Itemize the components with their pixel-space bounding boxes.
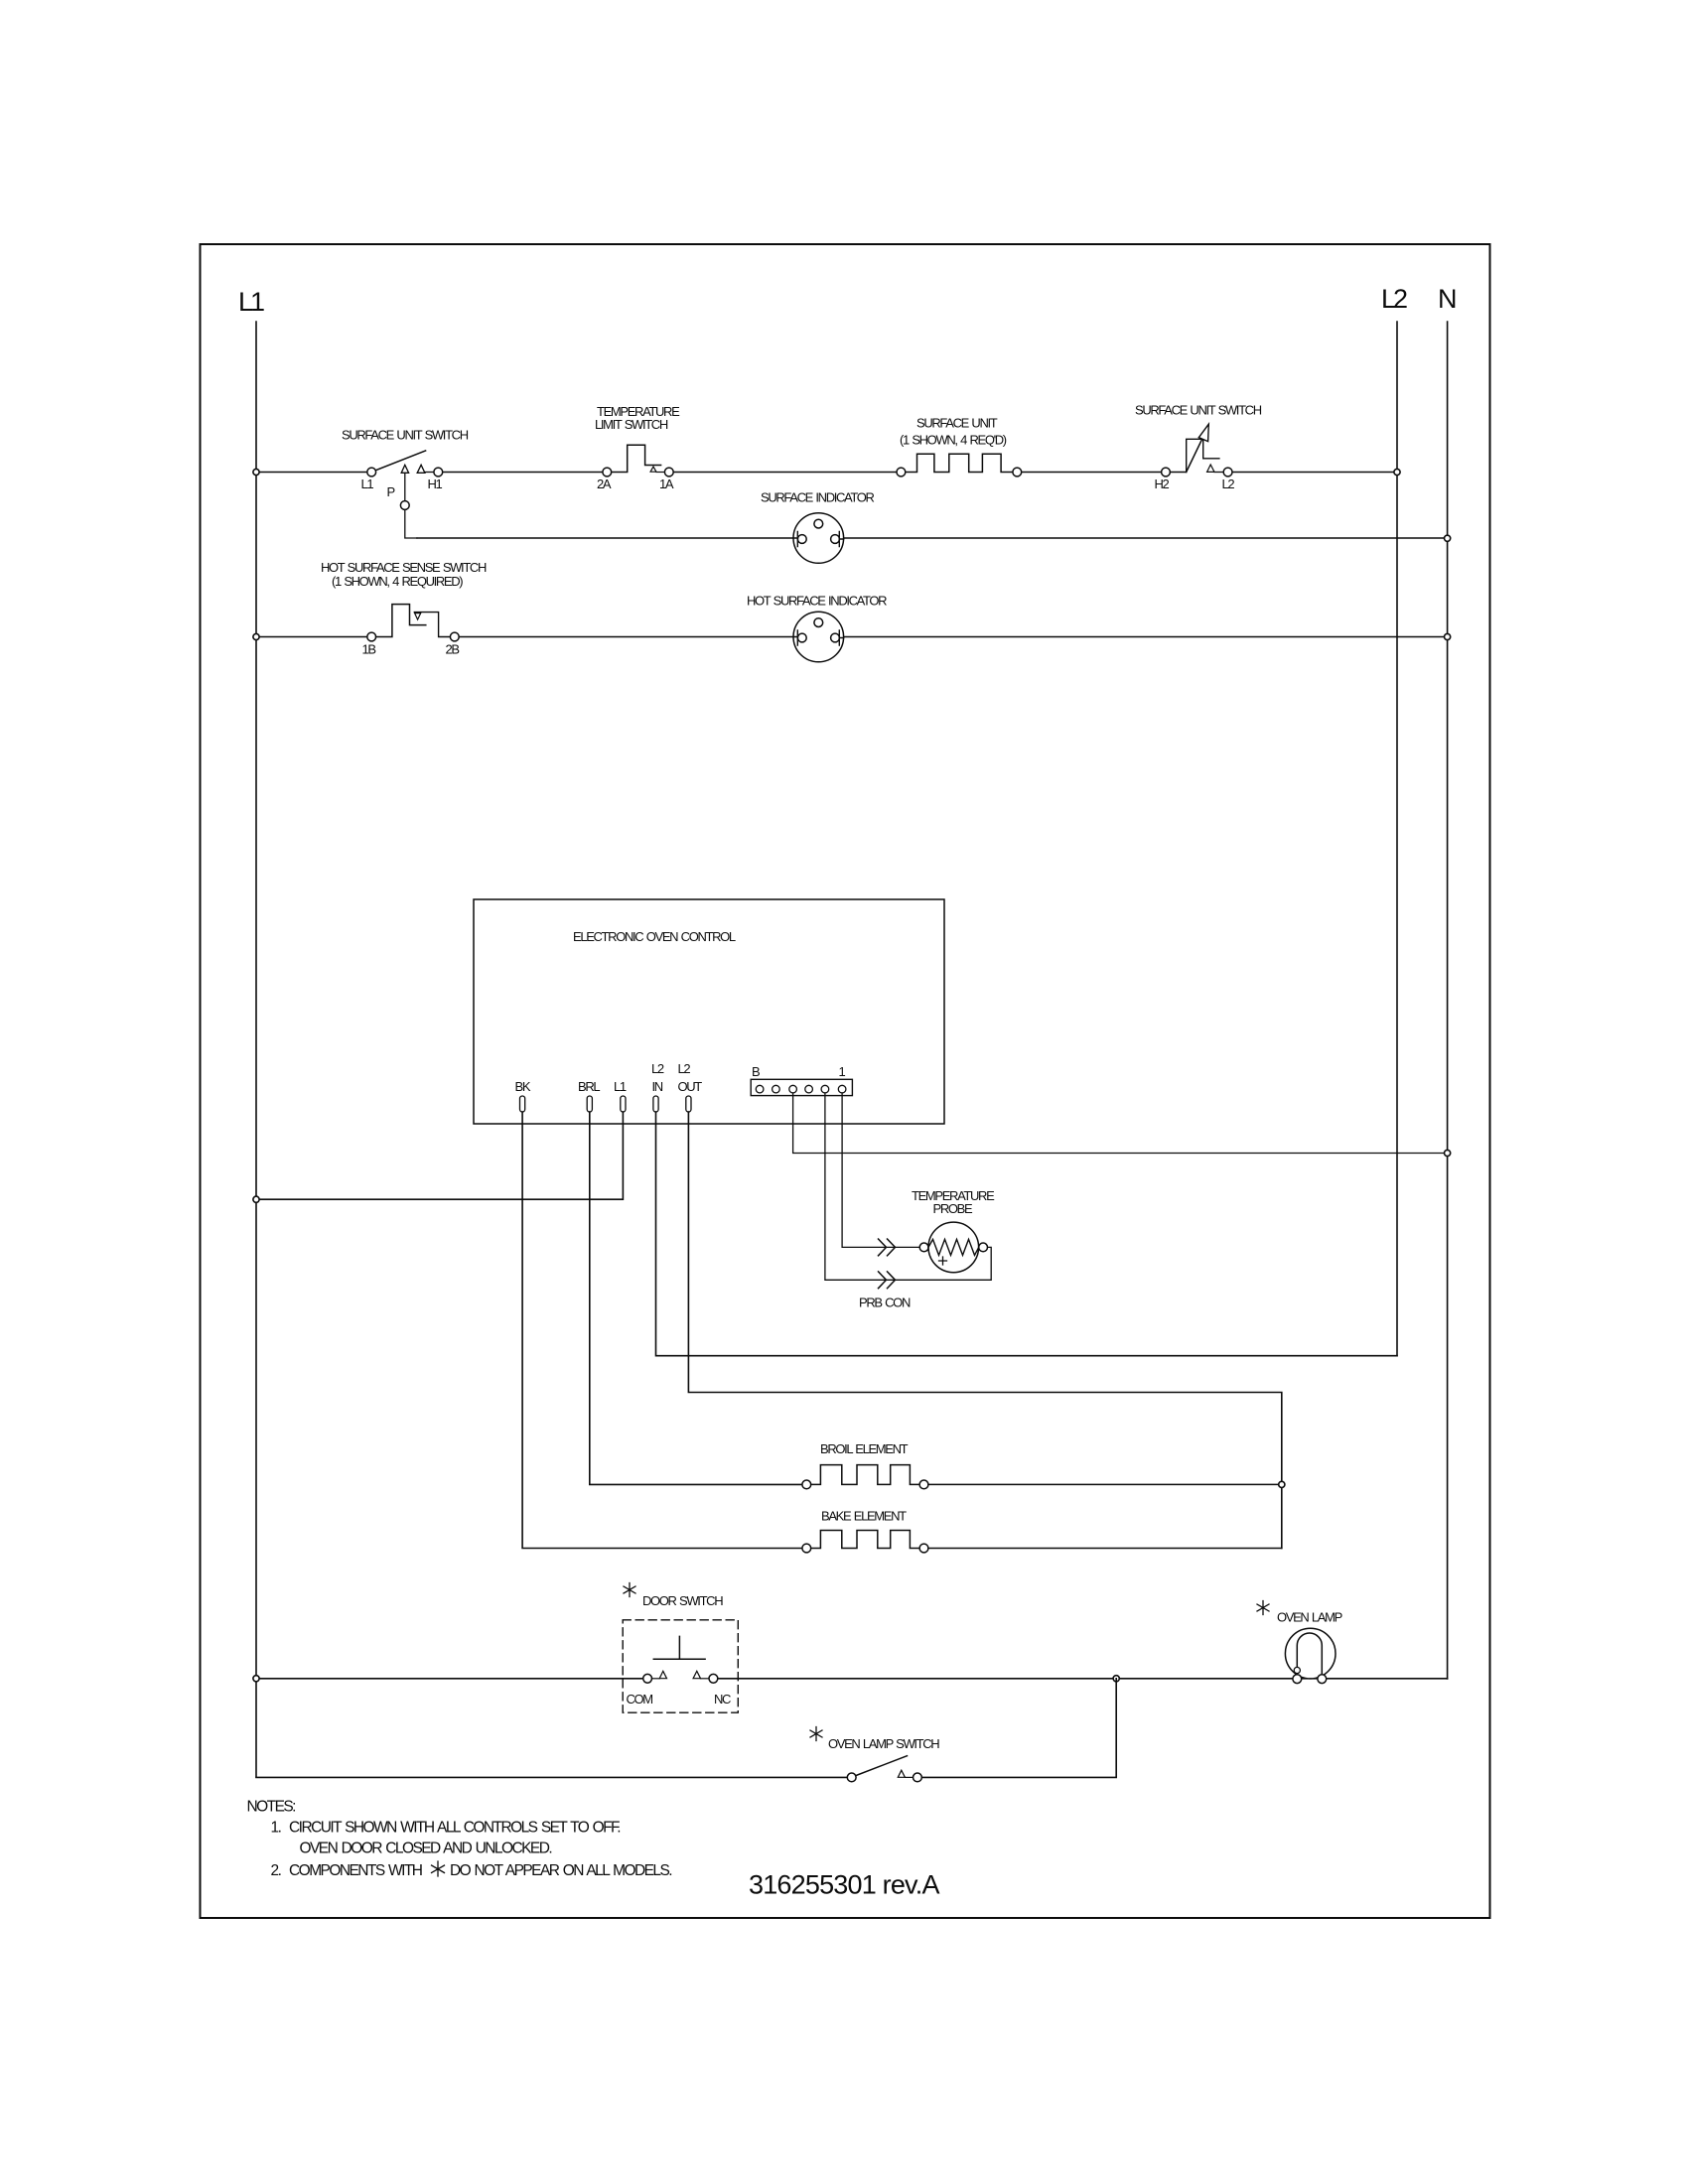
wire rung1 left segment L1 to surface unit switch [256,472,368,474]
wire probe common to N bus [793,1093,1448,1154]
svg-text:SURFACE UNIT: SURFACE UNIT [916,416,998,431]
connector block J1 [751,1064,852,1096]
wire door rung right [718,1678,1448,1680]
wire rung2 left segment [256,636,367,638]
svg-text:PROBE: PROBE [933,1201,973,1216]
svg-text:P: P [387,484,395,499]
wire rung2 2B to hot surface indicator [459,636,794,638]
junction lamp switch tap [1113,1676,1119,1682]
wire L2 bus vertical [1396,322,1398,1356]
svg-text:N: N [1438,284,1456,314]
svg-text:HOT SURFACE INDICATOR: HOT SURFACE INDICATOR [747,594,887,609]
svg-text:BAKE ELEMENT: BAKE ELEMENT [821,1509,907,1524]
svg-text:B: B [752,1064,760,1079]
junction rung1-L2 [1394,469,1400,475]
svg-text:2A: 2A [597,477,612,491]
wire L2 OUT pin to elements [688,1112,1281,1549]
pin BK [515,1079,531,1112]
junction L1-rung2 [253,633,259,639]
svg-text:BROIL ELEMENT: BROIL ELEMENT [820,1441,909,1456]
svg-text:DOOR SWITCH: DOOR SWITCH [642,1593,723,1608]
junction L1-door rung [253,1676,259,1682]
svg-text:NOTES:: NOTES: [247,1799,296,1816]
connector chevrons lower [879,1272,896,1289]
pin L2 OUT [678,1061,703,1112]
svg-text:1B: 1B [362,642,376,657]
svg-text:1: 1 [839,1064,846,1079]
svg-text:SURFACE INDICATOR: SURFACE INDICATOR [761,490,875,505]
asterisk in note 2 [432,1861,445,1876]
svg-text:PRB CON: PRB CON [859,1296,911,1310]
svg-text:OUT: OUT [678,1079,703,1094]
svg-text:L1: L1 [361,477,374,491]
wire surface indicator line [417,537,1448,539]
wire rung1 surface unit to H2 [1021,472,1162,474]
resistor surface unit element [897,416,1022,477]
svg-text:2. COMPONENTS WITH: 2. COMPONENTS WITH [271,1862,422,1879]
wire lamp switch rung [256,1679,1116,1778]
svg-text:HOT SURFACE SENSE SWITCH: HOT SURFACE SENSE SWITCH [321,560,487,575]
connector chevrons upper [879,1239,896,1256]
svg-text:L1: L1 [614,1079,627,1094]
lamp surface indicator [761,490,875,564]
switch temperature limit switch [595,404,680,491]
svg-text:L2: L2 [678,1061,691,1076]
svg-text:1A: 1A [659,477,674,491]
resistor temperature probe [859,1188,995,1310]
svg-text:OVEN DOOR CLOSED AND UNLOCKED.: OVEN DOOR CLOSED AND UNLOCKED. [300,1841,552,1857]
wire connector pin5 to probe right [825,1093,991,1280]
junction broil right on L2OUT wire [1279,1481,1285,1487]
wire N bus vertical [1447,322,1449,1679]
wire rung1 L2 terminal to L2 bus [1232,472,1397,474]
switch hot surface sense switch [321,560,487,657]
svg-text:1. CIRCUIT SHOWN WITH ALL CON: 1. CIRCUIT SHOWN WITH ALL CONTROLS SET T… [271,1820,621,1837]
pin BRL [578,1079,600,1112]
junction probe-common on N bus [1445,1150,1451,1156]
svg-text:L2: L2 [1381,284,1407,314]
svg-text:LIMIT SWITCH: LIMIT SWITCH [595,417,668,432]
border frame [201,244,1490,1918]
terminal P contact circle [400,501,409,510]
svg-text:SURFACE UNIT SWITCH: SURFACE UNIT SWITCH [1135,403,1262,418]
junction L1pin-wire on L1 bus [253,1196,259,1202]
wire L1 bus vertical [255,322,257,1777]
svg-text:L2: L2 [651,1061,664,1076]
wire BRL pin to broil element [590,1112,802,1484]
svg-text:BRL: BRL [578,1079,600,1094]
svg-text:316255301 rev.A: 316255301 rev.A [749,1870,939,1900]
wire rung1 1A to surface unit [673,472,897,474]
switch SW2 surface unit switch (right) [1135,403,1262,492]
svg-text:IN: IN [652,1079,663,1094]
switch oven lamp switch [810,1727,939,1782]
notes text block [247,1799,672,1880]
junction rung2-N [1445,633,1451,639]
svg-text:H2: H2 [1155,477,1170,491]
svg-text:OVEN LAMP SWITCH: OVEN LAMP SWITCH [828,1736,939,1751]
svg-text:L2: L2 [1222,477,1235,491]
svg-text:COM: COM [627,1692,653,1706]
svg-text:DO NOT APPEAR ON ALL MODELS.: DO NOT APPEAR ON ALL MODELS. [450,1862,671,1879]
wire rung2 hot surface indicator to N [843,636,1448,638]
wire P branch to surface indicator line [405,474,417,539]
svg-text:(1 SHOWN, 4 REQUIRED): (1 SHOWN, 4 REQUIRED) [332,574,463,589]
lamp oven lamp [1257,1601,1342,1684]
wire L2 IN pin to L2 bus [656,1112,1398,1356]
wire L1 pin down-left to L1 bus [256,1112,623,1199]
svg-text:L1: L1 [238,287,264,317]
lamp hot surface indicator [747,594,887,662]
wire door rung left [256,1678,643,1680]
resistor bake element [802,1509,1282,1553]
wire BK pin to bake element [522,1112,802,1549]
box electronic oven control U1 [474,899,944,1124]
wire rung1 H1 to 2A [443,472,604,474]
pin L2 IN [651,1061,664,1112]
svg-text:BK: BK [515,1079,531,1094]
svg-text:SURFACE UNIT SWITCH: SURFACE UNIT SWITCH [342,428,469,443]
switch SW1 surface unit switch (left) [342,428,469,500]
junction indicator-N [1445,535,1451,541]
wire connector pin6 to probe left [842,1093,919,1247]
svg-text:NC: NC [714,1692,731,1706]
resistor broil element [802,1441,1279,1489]
pin L1 [614,1079,627,1112]
junction L1-rung1 [253,469,259,475]
svg-text:ELECTRONIC OVEN CONTROL: ELECTRONIC OVEN CONTROL [573,929,736,944]
svg-text:(1 SHOWN, 4 REQ'D): (1 SHOWN, 4 REQ'D) [900,433,1007,448]
svg-text:H1: H1 [428,477,443,491]
svg-text:2B: 2B [446,642,460,657]
switch door switch S3 [623,1583,738,1713]
svg-text:OVEN LAMP: OVEN LAMP [1277,1610,1342,1625]
